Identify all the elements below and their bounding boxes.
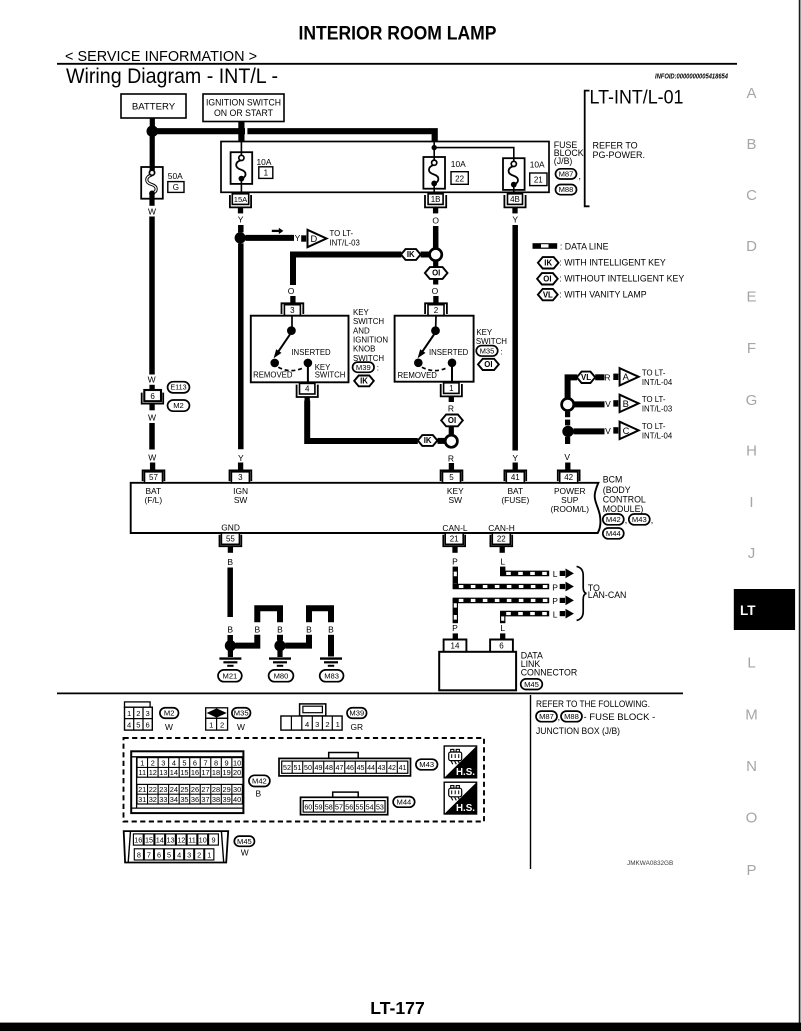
svg-text:P: P	[746, 862, 756, 879]
svg-text:GR: GR	[351, 722, 364, 732]
svg-text:22: 22	[497, 535, 506, 544]
wire W run to BCM	[149, 423, 155, 450]
connector ref M43 face	[416, 759, 438, 770]
wire Y main run	[238, 243, 244, 449]
switch common contact M39	[291, 316, 293, 327]
svg-text:M83: M83	[324, 671, 339, 680]
connector face M39	[300, 704, 326, 716]
connector ref M35	[476, 346, 498, 357]
svg-text:4: 4	[172, 758, 176, 767]
svg-text:E113: E113	[170, 383, 186, 392]
svg-text:4: 4	[305, 385, 310, 394]
battery box	[121, 94, 186, 118]
switch contact removed M35	[414, 359, 423, 368]
switch travel arc M39	[278, 367, 304, 370]
connector pin 55 GND	[220, 535, 242, 547]
svg-text:1: 1	[127, 709, 131, 718]
svg-text:VL: VL	[543, 290, 553, 299]
svg-text:M80: M80	[274, 671, 289, 680]
connector ref M2	[168, 400, 190, 411]
svg-text:3: 3	[290, 306, 295, 315]
wire corner to VL hex	[568, 377, 578, 398]
svg-text:INT/L-03: INT/L-03	[642, 404, 672, 413]
connector pin 57 BAT F/L	[143, 470, 165, 481]
svg-text:C: C	[746, 187, 757, 204]
wire V stub into pin 42	[565, 463, 570, 470]
switch blade M35	[422, 335, 435, 353]
svg-text:15: 15	[180, 768, 188, 777]
svg-text:: WITH INTELLIGENT KEY: : WITH INTELLIGENT KEY	[559, 258, 666, 268]
wire segment below OI	[449, 426, 454, 434]
wire battery stub	[150, 118, 155, 126]
switch travel arc M35	[422, 367, 448, 370]
logo H.S. upper	[444, 746, 476, 778]
legend hex IK	[538, 257, 559, 268]
data line L1 horizontal	[500, 571, 549, 577]
svg-text::: :	[501, 347, 503, 356]
wire inserted contact to pin 1	[451, 366, 453, 382]
svg-text:J: J	[748, 545, 756, 562]
arrow B to LT-INT/L-03	[613, 400, 618, 406]
svg-text:P: P	[452, 623, 458, 633]
svg-text:8: 8	[137, 851, 141, 860]
key switch and ignition knob switch box M39	[251, 316, 349, 383]
svg-text:I: I	[749, 494, 753, 511]
svg-text:V: V	[605, 399, 611, 409]
connector pin 3 IGN SW	[230, 470, 252, 481]
svg-text:H.S.: H.S.	[456, 803, 475, 814]
svg-text:MODULE): MODULE)	[603, 504, 644, 514]
svg-text:A: A	[623, 372, 630, 382]
svg-text:(BODY: (BODY	[603, 485, 631, 495]
svg-text:37: 37	[201, 795, 209, 804]
wire branch to key switch M39	[293, 252, 401, 255]
bracket refer to pg-power	[585, 91, 590, 207]
svg-text:B: B	[256, 788, 262, 798]
connector face M35	[206, 708, 228, 719]
svg-text:9: 9	[211, 836, 215, 845]
svg-text:50A: 50A	[168, 171, 183, 181]
connector ref M2 face	[160, 708, 179, 719]
header rule	[57, 63, 737, 65]
svg-text:IK: IK	[360, 377, 368, 386]
svg-text:M87: M87	[539, 712, 554, 721]
wire segment hex to splice	[438, 438, 446, 444]
svg-text:G: G	[746, 392, 758, 409]
svg-text:ON OR START: ON OR START	[214, 108, 273, 118]
svg-text:39: 39	[222, 795, 230, 804]
svg-text:IK: IK	[544, 258, 552, 267]
splice circle V	[562, 398, 574, 410]
svg-text:B: B	[227, 624, 233, 634]
data line L2 corner to pin 6	[500, 611, 505, 623]
ground ref M83	[320, 670, 344, 682]
svg-text:60: 60	[304, 803, 312, 811]
connector pin 14 DLC	[444, 640, 467, 652]
svg-text:LT-INT/L-01: LT-INT/L-01	[590, 87, 684, 109]
wire bridge 2 right leg to ground	[328, 635, 334, 657]
wire Y segment	[238, 225, 244, 232]
wire W battery run	[149, 217, 155, 375]
svg-text:3: 3	[315, 720, 319, 729]
connector pin 42 POWER SUP	[558, 470, 580, 481]
svg-text:A: A	[746, 85, 756, 102]
svg-text:IGNITION SWITCH: IGNITION SWITCH	[206, 97, 281, 107]
svg-text:8: 8	[214, 758, 218, 767]
svg-text:H.S.: H.S.	[456, 767, 475, 778]
junction node ground M80	[274, 640, 285, 651]
svg-text:M42: M42	[252, 776, 267, 785]
wire segment VL to R label	[595, 374, 604, 380]
svg-text:1: 1	[264, 169, 269, 178]
svg-text:IGNITION: IGNITION	[353, 336, 388, 345]
connector ref M87 footnote	[536, 711, 557, 722]
svg-text:44: 44	[367, 764, 375, 772]
svg-text:13: 13	[166, 836, 174, 845]
arrow C to LT-INT/L-04	[613, 427, 618, 433]
svg-text:12: 12	[177, 836, 185, 845]
ground symbol M21	[228, 650, 233, 657]
svg-text:42: 42	[388, 764, 396, 772]
svg-text:4B: 4B	[510, 195, 520, 204]
wire bus bar to fuse block	[152, 131, 434, 142]
connector ref M42	[603, 514, 624, 525]
svg-text:12: 12	[149, 768, 157, 777]
data line P2 corner to pin 14	[453, 598, 458, 623]
connector face M45	[124, 831, 229, 862]
svg-text:L: L	[553, 569, 558, 579]
svg-text:47: 47	[336, 764, 344, 772]
wire inside fuse block bus to fuse 22	[433, 142, 435, 163]
wire W stub above connector 6	[149, 385, 154, 390]
svg-text:Y: Y	[238, 214, 244, 224]
svg-text:M43: M43	[419, 760, 434, 769]
svg-text:11: 11	[188, 836, 196, 845]
connector ref M45 face	[234, 836, 254, 846]
wire segment below OI	[433, 279, 438, 285]
svg-text:O: O	[288, 286, 295, 296]
svg-text:6: 6	[150, 392, 155, 401]
svg-text:B: B	[328, 624, 334, 634]
connector pin 21 CAN-L	[443, 535, 465, 547]
switch contact removed M39	[270, 359, 279, 368]
sidebar LT tab	[734, 589, 795, 630]
svg-text:O: O	[432, 286, 439, 296]
wire battery to fuse G	[150, 131, 155, 171]
connector 1B	[425, 195, 446, 207]
footer bar	[0, 1023, 801, 1031]
splice circle R	[445, 435, 457, 447]
svg-text:INT/L-03: INT/L-03	[330, 238, 360, 247]
svg-text:B: B	[227, 557, 233, 567]
svg-text:54: 54	[366, 803, 374, 811]
svg-text:Y: Y	[512, 214, 518, 224]
svg-text:SWITCH: SWITCH	[315, 371, 346, 380]
svg-text:55: 55	[356, 803, 364, 811]
svg-text:B: B	[306, 624, 312, 634]
svg-text:14: 14	[156, 836, 164, 845]
connector ref E113	[168, 382, 190, 393]
svg-text:32: 32	[149, 795, 157, 804]
svg-text:16: 16	[134, 836, 142, 845]
svg-text:Wiring Diagram - INT/L -: Wiring Diagram - INT/L -	[66, 65, 278, 88]
wire inside fuse block ignition to fuse 1	[240, 142, 242, 159]
svg-text:TO LT-: TO LT-	[642, 395, 666, 404]
wire stub into key switch pin 2	[433, 296, 438, 304]
svg-text:TO LT-: TO LT-	[330, 229, 354, 238]
svg-text:1: 1	[336, 720, 340, 729]
data link connector box	[439, 652, 516, 691]
svg-text:(ROOM/L): (ROOM/L)	[550, 504, 589, 514]
wire segment hex to splice	[421, 252, 430, 258]
svg-text:14: 14	[170, 768, 178, 777]
svg-text:57: 57	[149, 473, 158, 482]
svg-text:- FUSE BLOCK -: - FUSE BLOCK -	[584, 712, 656, 723]
wire segment below node	[565, 437, 570, 444]
svg-text:42: 42	[564, 473, 573, 482]
svg-text:N: N	[746, 758, 757, 775]
legend hex OI	[537, 273, 558, 284]
svg-text:49: 49	[315, 764, 323, 772]
svg-text:: WITH VANITY LAMP: : WITH VANITY LAMP	[559, 290, 646, 300]
svg-text:: WITHOUT INTELLIGENT KEY: : WITHOUT INTELLIGENT KEY	[559, 274, 684, 284]
svg-text:5: 5	[449, 473, 454, 482]
svg-text:1B: 1B	[431, 195, 441, 204]
svg-text:SW: SW	[449, 495, 463, 505]
junction node fuse block	[432, 145, 437, 150]
svg-text:34: 34	[170, 795, 178, 804]
svg-text:2: 2	[220, 721, 224, 730]
wire Y stub into pin 3	[238, 463, 243, 470]
svg-text:Y: Y	[238, 453, 244, 463]
svg-text:11: 11	[138, 768, 146, 777]
wire R stub into pin 5	[449, 463, 454, 470]
svg-text:3: 3	[161, 758, 165, 767]
connector ref M43	[629, 514, 650, 525]
connector pin 2 key switch M35	[425, 303, 447, 314]
svg-text:20: 20	[233, 768, 241, 777]
splice circle	[430, 249, 442, 261]
svg-text:M2: M2	[164, 709, 175, 718]
svg-text:LT-177: LT-177	[370, 998, 425, 1018]
svg-text:5: 5	[136, 721, 140, 730]
wire segment node to V label	[574, 428, 605, 434]
footer divider vertical	[530, 695, 532, 869]
svg-text:CAN-L: CAN-L	[442, 523, 467, 533]
svg-text:22: 22	[455, 174, 464, 183]
wire inside fuse block to fuse 21	[434, 148, 514, 165]
svg-text:SW: SW	[234, 495, 248, 505]
svg-text:REFER TO THE FOLLOWING.: REFER TO THE FOLLOWING.	[536, 699, 650, 710]
svg-text:OI: OI	[543, 274, 551, 283]
svg-text:B: B	[623, 399, 629, 409]
footer rule	[57, 692, 683, 694]
svg-text:V: V	[564, 452, 570, 462]
data line P vertical from pin 21	[453, 567, 458, 589]
svg-text:BATTERY: BATTERY	[132, 102, 176, 113]
logo H.S. lower	[444, 782, 476, 814]
connector ref M88	[556, 185, 577, 195]
svg-text:3: 3	[238, 473, 243, 482]
ground symbol M83	[320, 657, 342, 659]
connector 4B	[504, 195, 525, 207]
junction node Y branch	[235, 232, 246, 243]
junction node ground M21	[225, 640, 236, 651]
svg-text:O: O	[746, 810, 758, 827]
svg-text:33: 33	[159, 795, 167, 804]
switch contact inserted M35	[448, 359, 457, 368]
svg-text:< SERVICE INFORMATION >: < SERVICE INFORMATION >	[65, 48, 257, 65]
svg-text:P: P	[452, 556, 458, 566]
svg-text:KEY: KEY	[353, 308, 370, 317]
svg-text:10A: 10A	[530, 160, 545, 170]
svg-text:OI: OI	[484, 360, 492, 369]
svg-text:F: F	[747, 340, 756, 357]
svg-text:15: 15	[145, 836, 153, 845]
svg-text:2: 2	[136, 709, 140, 718]
option hex OI on R wire	[441, 415, 463, 427]
svg-text:L: L	[747, 655, 755, 672]
svg-text:5: 5	[182, 758, 186, 767]
svg-text:22: 22	[149, 785, 157, 794]
svg-text:M88: M88	[559, 185, 574, 194]
svg-text:LT: LT	[740, 603, 756, 618]
svg-text:M42: M42	[606, 515, 621, 524]
svg-text:G: G	[173, 183, 179, 192]
connector pin 3 key switch M39	[282, 303, 304, 314]
svg-text:: DATA LINE: : DATA LINE	[560, 241, 609, 251]
connector ref M88 footnote	[561, 711, 582, 722]
svg-text:31: 31	[138, 795, 146, 804]
wire dash segments below splice	[565, 412, 570, 418]
svg-text:PG-POWER.: PG-POWER.	[593, 150, 646, 160]
option hex OI for M35	[478, 359, 499, 370]
svg-text:52: 52	[283, 764, 291, 772]
svg-text:9: 9	[225, 758, 229, 767]
svg-text:E: E	[746, 289, 756, 306]
svg-text:INSERTED: INSERTED	[291, 348, 331, 357]
connector pin 22 CAN-H	[490, 535, 512, 547]
svg-text:KNOB: KNOB	[353, 345, 375, 354]
connector ref M42 face	[249, 775, 270, 786]
svg-text:6: 6	[193, 758, 197, 767]
svg-text:B: B	[746, 136, 756, 153]
wire L stub into pin 6	[500, 633, 505, 639]
ground ref M80	[269, 670, 294, 682]
svg-text:41: 41	[511, 473, 520, 482]
svg-text:41: 41	[399, 764, 407, 772]
arrow D to LT-INT/L-03	[301, 235, 306, 241]
connector pin 41 BAT FUSE	[504, 470, 526, 481]
junction node battery bus	[147, 125, 159, 137]
fuse 10A 1	[231, 152, 253, 184]
svg-text:10A: 10A	[257, 157, 272, 167]
svg-text:3: 3	[187, 851, 191, 860]
wire segment circle to V label	[574, 401, 605, 407]
svg-text:R: R	[448, 454, 454, 464]
flow arrow above Y branch	[272, 230, 279, 232]
svg-text:KEY: KEY	[476, 328, 493, 337]
svg-text:4: 4	[305, 720, 309, 729]
svg-text::: :	[377, 364, 379, 373]
option hex IK for M39	[354, 376, 374, 387]
svg-text:L: L	[553, 609, 558, 619]
svg-text:D: D	[311, 234, 318, 244]
wire bridge 1 top	[257, 608, 280, 622]
svg-text:W: W	[165, 722, 173, 732]
connector pin 1 key switch M35	[441, 384, 462, 396]
ground ref M21	[218, 670, 242, 682]
wire Y stub under connector 4B	[512, 208, 517, 213]
svg-text:6: 6	[499, 642, 504, 651]
wire segment below splice	[433, 261, 438, 267]
svg-text:R: R	[448, 403, 454, 413]
wire R stub under pin 4	[305, 397, 310, 402]
wire bridge 1 right leg	[277, 635, 283, 641]
svg-text:30: 30	[233, 785, 241, 794]
svg-text:CONNECTOR: CONNECTOR	[521, 667, 578, 677]
svg-text:W: W	[241, 847, 249, 857]
svg-text:M35: M35	[480, 346, 495, 355]
svg-text:57: 57	[335, 803, 343, 811]
connector ref M35 face	[232, 708, 251, 719]
svg-text:16: 16	[191, 768, 199, 777]
svg-text:M35: M35	[234, 709, 249, 718]
svg-text:P: P	[552, 596, 558, 606]
svg-text:35: 35	[180, 795, 188, 804]
svg-text:21: 21	[534, 176, 543, 185]
svg-text:IK: IK	[407, 250, 415, 259]
fuse 50A G	[141, 167, 163, 199]
svg-text:M87: M87	[559, 169, 574, 178]
svg-text:46: 46	[346, 764, 354, 772]
svg-text:Y: Y	[295, 233, 301, 243]
dashed group box	[124, 738, 485, 822]
svg-text:M21: M21	[223, 671, 238, 680]
svg-text:,: ,	[625, 515, 627, 525]
wire O segment to splice	[433, 226, 439, 248]
fuse block J/B box	[221, 142, 549, 193]
svg-text:R: R	[604, 372, 610, 382]
svg-text:M: M	[745, 706, 758, 723]
option hex VL on A branch	[577, 372, 595, 383]
svg-text:M2: M2	[173, 401, 184, 410]
svg-text:SWITCH: SWITCH	[353, 317, 384, 326]
svg-text:51: 51	[294, 764, 302, 772]
svg-text:10: 10	[199, 836, 207, 845]
svg-text:M45: M45	[524, 680, 539, 689]
svg-text:TO LT-: TO LT-	[642, 422, 666, 431]
svg-text:INFOID:0000000005418654: INFOID:0000000005418654	[655, 72, 729, 81]
svg-text:(F/L): (F/L)	[144, 495, 162, 505]
brace to lan-can	[577, 566, 587, 620]
svg-text:1: 1	[207, 851, 211, 860]
svg-text:38: 38	[212, 795, 220, 804]
wire P stub into pin 14	[453, 633, 458, 639]
svg-text:17: 17	[201, 768, 209, 777]
svg-text:7: 7	[147, 851, 151, 860]
svg-text:Y: Y	[512, 453, 518, 463]
wire branch M39 R to splice	[307, 401, 418, 442]
fuse 10A 21	[503, 158, 525, 190]
svg-text:10A: 10A	[451, 159, 466, 169]
svg-text:INT/L-04: INT/L-04	[642, 378, 673, 387]
page edge line	[799, 0, 801, 1031]
wire crossing gap	[245, 128, 247, 135]
wire bridge 2 top	[309, 608, 331, 622]
svg-text:23: 23	[159, 785, 167, 794]
svg-text:REMOVED: REMOVED	[398, 371, 438, 380]
